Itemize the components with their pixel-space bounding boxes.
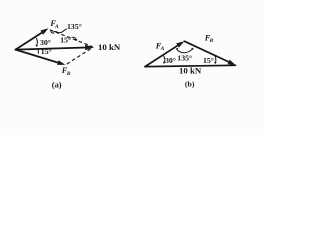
svg-text:15°: 15° — [203, 56, 214, 65]
svg-text:A: A — [160, 46, 165, 52]
svg-text:135°: 135° — [67, 22, 82, 31]
svg-text:30°: 30° — [40, 38, 51, 47]
svg-text:B: B — [209, 38, 214, 44]
svg-text:135°: 135° — [177, 54, 192, 63]
svg-text:15°: 15° — [41, 47, 52, 56]
svg-text:A: A — [54, 24, 59, 30]
svg-text:10 kN: 10 kN — [98, 42, 121, 52]
svg-text:30°: 30° — [165, 56, 176, 65]
svg-text:(b): (b) — [185, 79, 195, 88]
svg-text:10 kN: 10 kN — [179, 66, 202, 76]
svg-text:B: B — [66, 71, 71, 77]
svg-text:15°: 15° — [60, 35, 71, 44]
svg-text:(a): (a) — [52, 81, 62, 90]
